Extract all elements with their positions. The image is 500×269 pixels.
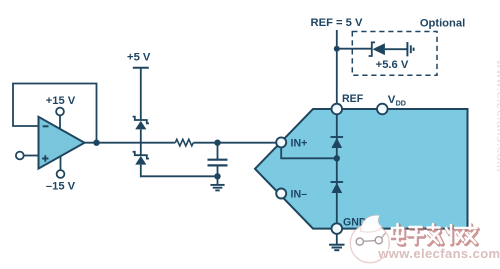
pin IN+ bbox=[276, 137, 307, 149]
wire op-amp output bbox=[85, 142, 176, 144]
zener diode D3 +5.6 V bbox=[369, 42, 409, 71]
ADC internal vertical wire bbox=[336, 109, 338, 229]
svg-text:DD: DD bbox=[396, 99, 406, 108]
svg-text:www.elecfans.com: www.elecfans.com bbox=[377, 246, 500, 261]
svg-text:+5 V: +5 V bbox=[127, 52, 151, 64]
ADC U2 body bbox=[255, 109, 468, 229]
node output junction bbox=[93, 140, 99, 146]
svg-text:–15 V: –15 V bbox=[46, 180, 76, 192]
ADC internal diode D4 (junction to REF) bbox=[331, 137, 344, 148]
clamp diode D1 (to +5V, schottky) bbox=[133, 117, 149, 143]
pin IN- bbox=[276, 189, 307, 201]
ground (below capacitor) bbox=[210, 176, 224, 190]
+5 V supply rail bbox=[127, 52, 151, 120]
node REF junction bbox=[334, 46, 340, 52]
pin GND bbox=[332, 216, 367, 234]
optional dashed box bbox=[352, 32, 437, 76]
op-amp input terminal bbox=[16, 152, 39, 160]
ADC internal diode D5 (GND to junction) bbox=[331, 182, 344, 193]
wire REF junction to zener bbox=[337, 48, 372, 50]
ground (below GND pin) bbox=[329, 234, 344, 250]
node RC junction bbox=[214, 140, 220, 146]
capacitor C1 bbox=[208, 143, 228, 177]
wire IN+ to internal junction bbox=[281, 147, 337, 158]
svg-text:IN+: IN+ bbox=[291, 138, 308, 150]
svg-text:REF = 5 V: REF = 5 V bbox=[311, 17, 363, 29]
node ADC internal junction bbox=[334, 155, 340, 161]
watermark chinese text bbox=[392, 224, 478, 245]
svg-text:+15 V: +15 V bbox=[46, 95, 76, 107]
watermark url bottom bbox=[376, 244, 500, 261]
wire REF supply bbox=[336, 30, 338, 104]
op-amp U1 bbox=[39, 117, 85, 169]
-15 V supply bbox=[46, 156, 76, 193]
svg-text:IN–: IN– bbox=[291, 189, 308, 201]
clamp diode D2 (to ground, schottky) bbox=[133, 143, 149, 165]
node capacitor ground junction bbox=[214, 173, 220, 179]
ground (rotated, in optional box) bbox=[407, 42, 413, 56]
+15 V supply bbox=[46, 95, 76, 130]
svg-text:Optional: Optional bbox=[420, 17, 465, 29]
pin REF bbox=[332, 93, 364, 114]
pin VDD bbox=[377, 94, 406, 114]
svg-text:REF: REF bbox=[342, 93, 364, 105]
wire clamp return to ground bbox=[141, 165, 218, 177]
svg-text:www.elecfans.com: www.elecfans.com bbox=[494, 59, 500, 172]
wire resistor to IN+ bbox=[193, 142, 276, 144]
resistor R1 bbox=[175, 139, 193, 146]
wire feedback loop bbox=[13, 84, 97, 143]
svg-text:V: V bbox=[388, 94, 396, 106]
watermark logo leaf bbox=[350, 215, 389, 262]
svg-text:+5.6 V: +5.6 V bbox=[376, 59, 409, 71]
